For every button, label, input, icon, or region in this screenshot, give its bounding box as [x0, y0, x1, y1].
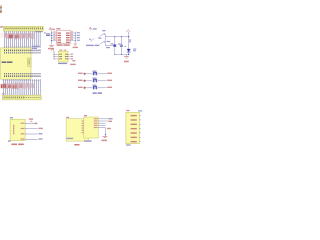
wire row 1 left: [86, 73, 92, 75]
label C2 value: [118, 44, 121, 45]
label U5 refdes: [56, 28, 60, 29]
label net left row 3: [78, 87, 82, 88]
label GND power section: [124, 61, 129, 63]
JP6 pin names: [82, 120, 87, 121]
wire vertical bus left of U5: [50, 30, 52, 44]
wire bus right of U5: [70, 32, 75, 34]
connector JP1 top strip: [3, 26, 43, 31]
label LED L right: [133, 49, 136, 50]
pin numbers above IC3: [4, 46, 5, 47]
wire C1 vertical: [114, 37, 116, 55]
Q1 pin name texts: [58, 54, 61, 55]
diode LED row 1: [83, 73, 85, 75]
label net left row 2: [78, 80, 82, 81]
diode LED row 3: [83, 87, 85, 89]
connector JP6 body: [66, 119, 88, 141]
label below S1: [106, 47, 110, 48]
label JP6 value: [74, 144, 79, 146]
wire row 1 right: [98, 73, 107, 75]
junction top bus at C1: [114, 36, 115, 37]
net label band bottom: [1, 83, 31, 88]
wire JP7 down: [105, 128, 107, 136]
resistor R row 2: [92, 79, 98, 82]
net labels on top bus: [4, 33, 7, 38]
label U5 value: [57, 44, 63, 45]
pin names bottom rows IC3: [4, 73, 5, 74]
supply +5V symbol near Q1: [51, 49, 53, 52]
pin numbers above JP2: [3, 94, 4, 95]
pin names top rows IC3: [4, 50, 5, 52]
net label band top: [1, 33, 34, 38]
connector ICSP body: [10, 119, 25, 140]
diode D1 diagonal: [90, 38, 94, 41]
wire stubs to Q1 left pins: [54, 53, 58, 55]
junction top bus at C2: [121, 36, 122, 37]
label above fuse F1: [102, 30, 105, 31]
IC3 value text: [2, 62, 7, 63]
wire stubs to U5 left pins: [51, 32, 56, 34]
label JP7 refdes bottom: [84, 140, 92, 142]
label net JP7 pin1: [108, 118, 112, 119]
junction cross ICSP pin1: [35, 123, 37, 125]
label resistor pack value: [93, 92, 97, 94]
connector JP5 body: [126, 112, 139, 143]
resonator Q1 body: [58, 51, 68, 62]
label Q1 refdes: [59, 50, 62, 51]
wire row 3 right: [98, 87, 107, 89]
label GND below U5 bus: [48, 48, 54, 50]
label C1 value: [111, 43, 114, 44]
wire row 2 left: [86, 80, 92, 82]
wire top power bus: [105, 36, 128, 38]
net labels right of U5: [77, 32, 80, 33]
label GND JP7: [102, 140, 107, 142]
label JP5 bottom: [126, 144, 130, 145]
ground GND right of Q1: [72, 59, 76, 61]
label right of +5V arrow: [93, 28, 97, 29]
label net JP7 pin2: [108, 121, 112, 122]
label POWERSUPPLY: [86, 45, 94, 46]
wire bus JP1 to IC3: [4, 31, 6, 48]
junction bottom at C1: [114, 54, 115, 55]
label ICSP value: [11, 144, 17, 146]
label net ICSP pin3: [39, 133, 43, 134]
label below U5 bus: [73, 47, 78, 48]
label C value: [44, 32, 46, 33]
label JP7 refdes: [84, 115, 87, 116]
label Q1 value: [58, 63, 67, 64]
supply symbol below U5 bus: [74, 43, 77, 45]
label JP6 refdes: [66, 117, 69, 118]
label net right row 1: [107, 73, 112, 74]
wires JP7 pins: [98, 118, 107, 120]
wire C2 vertical: [120, 37, 122, 55]
switch S1 diagonal: [100, 42, 104, 45]
label +5V near U5: [52, 29, 55, 30]
junction bottom at C2: [121, 54, 122, 55]
ground GND JP7: [103, 135, 108, 137]
wire bus IC3 to JP2: [3, 79, 5, 95]
wire vertical joining F1 S1: [104, 34, 106, 46]
label JP6 gnd: [67, 138, 74, 139]
pin numbers in JP2: [4, 97, 5, 99]
label JP5 small top: [138, 110, 142, 111]
frame logo fragment: [0, 5, 2, 7]
capacitor C2: [120, 44, 123, 47]
label net right row 2: [107, 80, 112, 81]
ICSP vertical name: [13, 125, 14, 127]
capacitor C1: [113, 44, 116, 47]
wire mid power link: [105, 45, 115, 47]
junction top bus at LED: [128, 36, 129, 37]
label AREF right of IC3: [32, 46, 40, 47]
ICSP pin names: [21, 123, 25, 124]
label left of F1: [98, 38, 101, 39]
JP7 pin names: [94, 118, 98, 119]
label JP2 refdes: [2, 93, 5, 94]
supply +5V arrow symbol PWR: [89, 27, 91, 29]
IC3 port sub-box: [28, 58, 32, 66]
supply +5V symbol ICSP: [29, 118, 33, 119]
ground GND below U5 bus: [49, 44, 54, 46]
JP5 pin names and stubs: [131, 115, 137, 116]
wire bottom power bus: [115, 53, 129, 55]
label VIN mid: [107, 41, 110, 42]
ground GND power section: [125, 54, 127, 56]
wire LED branch vertical: [128, 32, 130, 54]
wire stubs right of Q1: [68, 53, 71, 55]
wire row 2 right: [98, 80, 107, 82]
net labels on bottom bus: [3, 83, 6, 88]
connector JP2 bottom strip: [2, 95, 41, 100]
junction bottom at LED: [128, 54, 129, 55]
label net right row 3: [107, 87, 112, 88]
U5 pin numbers: [53, 31, 55, 32]
label net JP7 mid: [107, 128, 111, 129]
wire bus left of Q1: [53, 52, 55, 60]
label JP5 refdes: [126, 110, 129, 111]
diode LED row 2: [83, 80, 85, 82]
U5 pin name texts: [57, 33, 61, 34]
fuse F1 diagonal: [100, 34, 104, 37]
net name dash right of JP1: [35, 30, 42, 33]
supply +5V symbol near U5: [49, 28, 51, 31]
pin numbers below IC3: [3, 80, 4, 81]
label net left row 1: [78, 73, 82, 74]
supply +5V symbol top right: [127, 30, 129, 32]
resistor R row 3: [92, 86, 98, 89]
label ON near LED top: [129, 40, 131, 41]
pin numbers in JP1: [5, 28, 6, 30]
label JP1: [0, 26, 2, 28]
LED D2 power-on: [127, 49, 131, 52]
label GND ICSP: [8, 140, 11, 142]
label net ICSP pin2: [39, 128, 43, 129]
connector JP7 body: [84, 117, 99, 138]
capacitor C bypass plates: [46, 33, 50, 36]
label GND right of Q1: [70, 64, 76, 65]
wire row 3 left: [86, 87, 92, 89]
wires ICSP pins: [25, 122, 27, 124]
label net ICSP pin4: [39, 138, 43, 139]
label ICSP refdes: [10, 117, 13, 118]
microcontroller IC3 body: [1, 48, 31, 79]
label left of C1 small: [125, 46, 126, 47]
IC U5 level shifter box: [57, 30, 71, 44]
resistor R row 1: [92, 72, 98, 75]
